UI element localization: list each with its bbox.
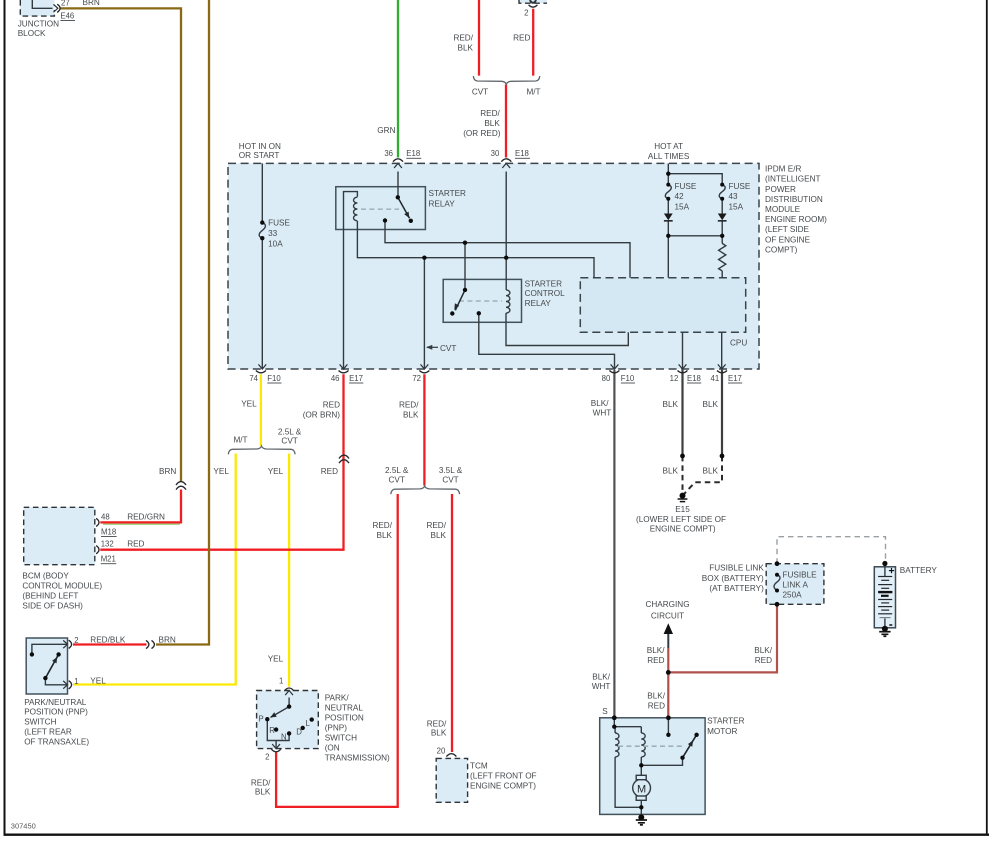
svg-text:RED/: RED/ [427, 720, 447, 729]
svg-text:DISTRIBUTION: DISTRIBUTION [765, 195, 823, 204]
svg-text:41: 41 [711, 374, 720, 383]
svg-text:STARTER: STARTER [429, 189, 467, 198]
svg-text:P: P [259, 714, 264, 723]
svg-text:ENGINE COMPT): ENGINE COMPT) [650, 525, 716, 534]
svg-text:FUSIBLE LINK: FUSIBLE LINK [709, 564, 764, 573]
svg-text:RED: RED [513, 33, 530, 42]
svg-text:FUSE: FUSE [675, 182, 697, 191]
svg-text:46: 46 [331, 374, 340, 383]
svg-text:MODULE: MODULE [765, 205, 801, 214]
svg-text:E18: E18 [687, 374, 701, 383]
svg-text:E17: E17 [728, 374, 742, 383]
svg-text:2: 2 [74, 636, 78, 645]
svg-text:COMPT): COMPT) [765, 245, 798, 254]
svg-text:2.5L &: 2.5L & [278, 428, 302, 437]
svg-text:M21: M21 [101, 555, 116, 564]
svg-text:RED: RED [127, 540, 144, 549]
svg-text:72: 72 [412, 374, 421, 383]
svg-text:BLK/: BLK/ [754, 646, 772, 655]
svg-text:M/T: M/T [526, 88, 540, 97]
svg-text:JUNCTION: JUNCTION [18, 19, 59, 28]
svg-text:CHARGING: CHARGING [645, 600, 689, 609]
svg-text:307450: 307450 [11, 821, 36, 830]
svg-text:250A: 250A [783, 591, 803, 600]
svg-text:CONTROL: CONTROL [525, 289, 565, 298]
svg-text:(BEHIND LEFT: (BEHIND LEFT [22, 591, 78, 600]
svg-text:E46: E46 [60, 12, 74, 21]
svg-text:HOT AT: HOT AT [654, 142, 683, 151]
svg-text:NEUTRAL: NEUTRAL [325, 704, 364, 713]
svg-text:POWER: POWER [765, 185, 796, 194]
svg-text:BLK: BLK [703, 400, 719, 409]
svg-text:BLK: BLK [703, 466, 719, 475]
svg-text:74: 74 [249, 374, 258, 383]
svg-text:43: 43 [729, 192, 739, 201]
svg-text:CVT: CVT [281, 436, 297, 445]
svg-text:BLK: BLK [663, 466, 679, 475]
svg-text:POSITION: POSITION [325, 714, 364, 723]
svg-text:E17: E17 [349, 374, 363, 383]
svg-text:GRN: GRN [377, 126, 395, 135]
svg-text:RED/: RED/ [251, 779, 271, 788]
svg-text:E15: E15 [675, 505, 690, 514]
svg-text:POSITION (PNP): POSITION (PNP) [24, 708, 88, 717]
svg-text:(LEFT FRONT OF: (LEFT FRONT OF [470, 772, 537, 781]
svg-text:BLK: BLK [484, 119, 500, 128]
svg-text:BLK: BLK [431, 728, 447, 737]
svg-text:(INTELLIGENT: (INTELLIGENT [765, 175, 821, 184]
svg-text:D: D [296, 727, 302, 736]
svg-text:YEL: YEL [268, 467, 284, 476]
svg-text:RED/BLK: RED/BLK [90, 636, 126, 645]
svg-text:L: L [306, 719, 311, 728]
svg-text:(OR BRN): (OR BRN) [303, 411, 341, 420]
svg-text:ALL TIMES: ALL TIMES [648, 152, 690, 161]
svg-text:BLK/: BLK/ [591, 399, 609, 408]
svg-text:FUSIBLE: FUSIBLE [783, 570, 818, 579]
svg-text:RELAY: RELAY [429, 200, 456, 209]
svg-text:BATTERY: BATTERY [900, 566, 938, 575]
svg-text:E18: E18 [515, 149, 529, 158]
svg-text:N: N [281, 733, 287, 742]
svg-text:2: 2 [265, 753, 269, 762]
svg-text:RED/: RED/ [399, 400, 419, 409]
svg-text:BLK: BLK [255, 788, 271, 797]
svg-text:CONTROL MODULE): CONTROL MODULE) [22, 581, 102, 590]
svg-text:BLK/: BLK/ [592, 672, 610, 681]
svg-text:CVT: CVT [440, 344, 456, 353]
svg-text:RED: RED [647, 656, 664, 665]
svg-text:FUSE: FUSE [729, 182, 751, 191]
svg-text:(PNP): (PNP) [325, 724, 348, 733]
svg-text:OF ENGINE: OF ENGINE [765, 235, 811, 244]
svg-text:RED/: RED/ [480, 109, 500, 118]
svg-text:BCM (BODY: BCM (BODY [22, 571, 69, 580]
svg-text:CVT: CVT [389, 475, 405, 484]
svg-text:RELAY: RELAY [525, 299, 552, 308]
svg-text:WHT: WHT [592, 682, 611, 691]
svg-text:3.5L &: 3.5L & [439, 466, 463, 475]
svg-text:FUSE: FUSE [268, 218, 290, 227]
svg-text:RED: RED [323, 400, 340, 409]
svg-text:LINK A: LINK A [783, 581, 809, 590]
svg-text:(LOWER LEFT SIDE OF: (LOWER LEFT SIDE OF [636, 515, 726, 524]
svg-text:2.5L &: 2.5L & [385, 466, 409, 475]
svg-text:RED/: RED/ [426, 521, 446, 530]
svg-text:RED/: RED/ [372, 521, 392, 530]
svg-text:SWITCH: SWITCH [24, 718, 56, 727]
svg-text:HOT IN ON: HOT IN ON [239, 142, 281, 151]
svg-text:SWITCH: SWITCH [325, 734, 357, 743]
svg-text:132: 132 [101, 540, 114, 549]
svg-text:TRANSMISSION): TRANSMISSION) [325, 754, 390, 763]
svg-text:YEL: YEL [90, 677, 106, 686]
svg-text:BLK: BLK [663, 400, 679, 409]
svg-text:BRN: BRN [159, 636, 176, 645]
svg-text:STARTER: STARTER [707, 717, 745, 726]
svg-text:12: 12 [670, 374, 679, 383]
svg-text:M: M [637, 783, 646, 795]
svg-text:(AT BATTERY): (AT BATTERY) [709, 584, 764, 593]
svg-text:36: 36 [384, 149, 393, 158]
svg-text:30: 30 [491, 149, 500, 158]
svg-text:CIRCUIT: CIRCUIT [651, 612, 684, 621]
svg-text:10A: 10A [268, 239, 283, 248]
svg-text:CVT: CVT [442, 475, 458, 484]
svg-text:CPU: CPU [730, 339, 747, 348]
svg-text:R: R [269, 726, 275, 735]
svg-text:(OR RED): (OR RED) [463, 129, 501, 138]
svg-text:YEL: YEL [268, 654, 284, 663]
svg-text:YEL: YEL [213, 467, 229, 476]
svg-text:BLK/: BLK/ [647, 691, 665, 700]
svg-text:ENGINE ROOM): ENGINE ROOM) [765, 215, 827, 224]
svg-text:RED: RED [321, 467, 338, 476]
svg-text:M/T: M/T [233, 435, 247, 444]
svg-text:RED: RED [648, 702, 665, 711]
svg-text:S: S [602, 707, 608, 716]
svg-text:27: 27 [61, 0, 70, 7]
svg-text:1: 1 [279, 677, 283, 686]
svg-text:15A: 15A [675, 203, 690, 212]
svg-text:SIDE OF DASH): SIDE OF DASH) [22, 601, 83, 610]
svg-text:BLK/: BLK/ [647, 646, 665, 655]
svg-text:80: 80 [602, 374, 611, 383]
svg-text:BLK: BLK [403, 411, 419, 420]
svg-text:BLOCK: BLOCK [18, 29, 46, 38]
svg-text:BLK: BLK [431, 531, 447, 540]
svg-text:(ON: (ON [325, 744, 340, 753]
svg-text:WHT: WHT [593, 409, 612, 418]
svg-text:1: 1 [74, 677, 78, 686]
svg-text:M18: M18 [101, 528, 116, 537]
svg-text:(LEFT SIDE: (LEFT SIDE [765, 225, 810, 234]
svg-text:E18: E18 [406, 149, 420, 158]
svg-text:20: 20 [437, 747, 446, 756]
svg-text:(LEFT REAR: (LEFT REAR [24, 728, 72, 737]
svg-text:RED/GRN: RED/GRN [127, 513, 165, 522]
svg-text:OR START: OR START [239, 151, 280, 160]
svg-text:PARK/: PARK/ [325, 694, 350, 703]
svg-text:BLK: BLK [458, 43, 474, 52]
svg-text:YEL: YEL [241, 400, 257, 409]
svg-text:PARK/NEUTRAL: PARK/NEUTRAL [24, 698, 87, 707]
svg-text:BLK: BLK [377, 531, 393, 540]
svg-text:F10: F10 [621, 374, 635, 383]
svg-text:F10: F10 [267, 374, 281, 383]
svg-text:BRN: BRN [159, 467, 176, 476]
svg-text:ENGINE COMPT): ENGINE COMPT) [470, 781, 536, 790]
svg-text:TCM: TCM [470, 761, 488, 770]
svg-text:48: 48 [101, 512, 110, 521]
svg-text:CVT: CVT [472, 88, 488, 97]
svg-text:IPDM E/R: IPDM E/R [765, 165, 801, 174]
svg-text:33: 33 [268, 229, 278, 238]
svg-text:OF TRANSAXLE): OF TRANSAXLE) [24, 737, 89, 746]
svg-text:15A: 15A [729, 203, 744, 212]
svg-text:BRN: BRN [83, 0, 100, 7]
svg-text:2: 2 [524, 9, 528, 18]
svg-text:42: 42 [675, 192, 685, 201]
svg-text:BOX (BATTERY): BOX (BATTERY) [702, 574, 764, 583]
svg-text:MOTOR: MOTOR [707, 727, 737, 736]
svg-text:STARTER: STARTER [525, 280, 563, 289]
svg-text:RED/: RED/ [453, 33, 473, 42]
svg-text:RED: RED [755, 656, 772, 665]
